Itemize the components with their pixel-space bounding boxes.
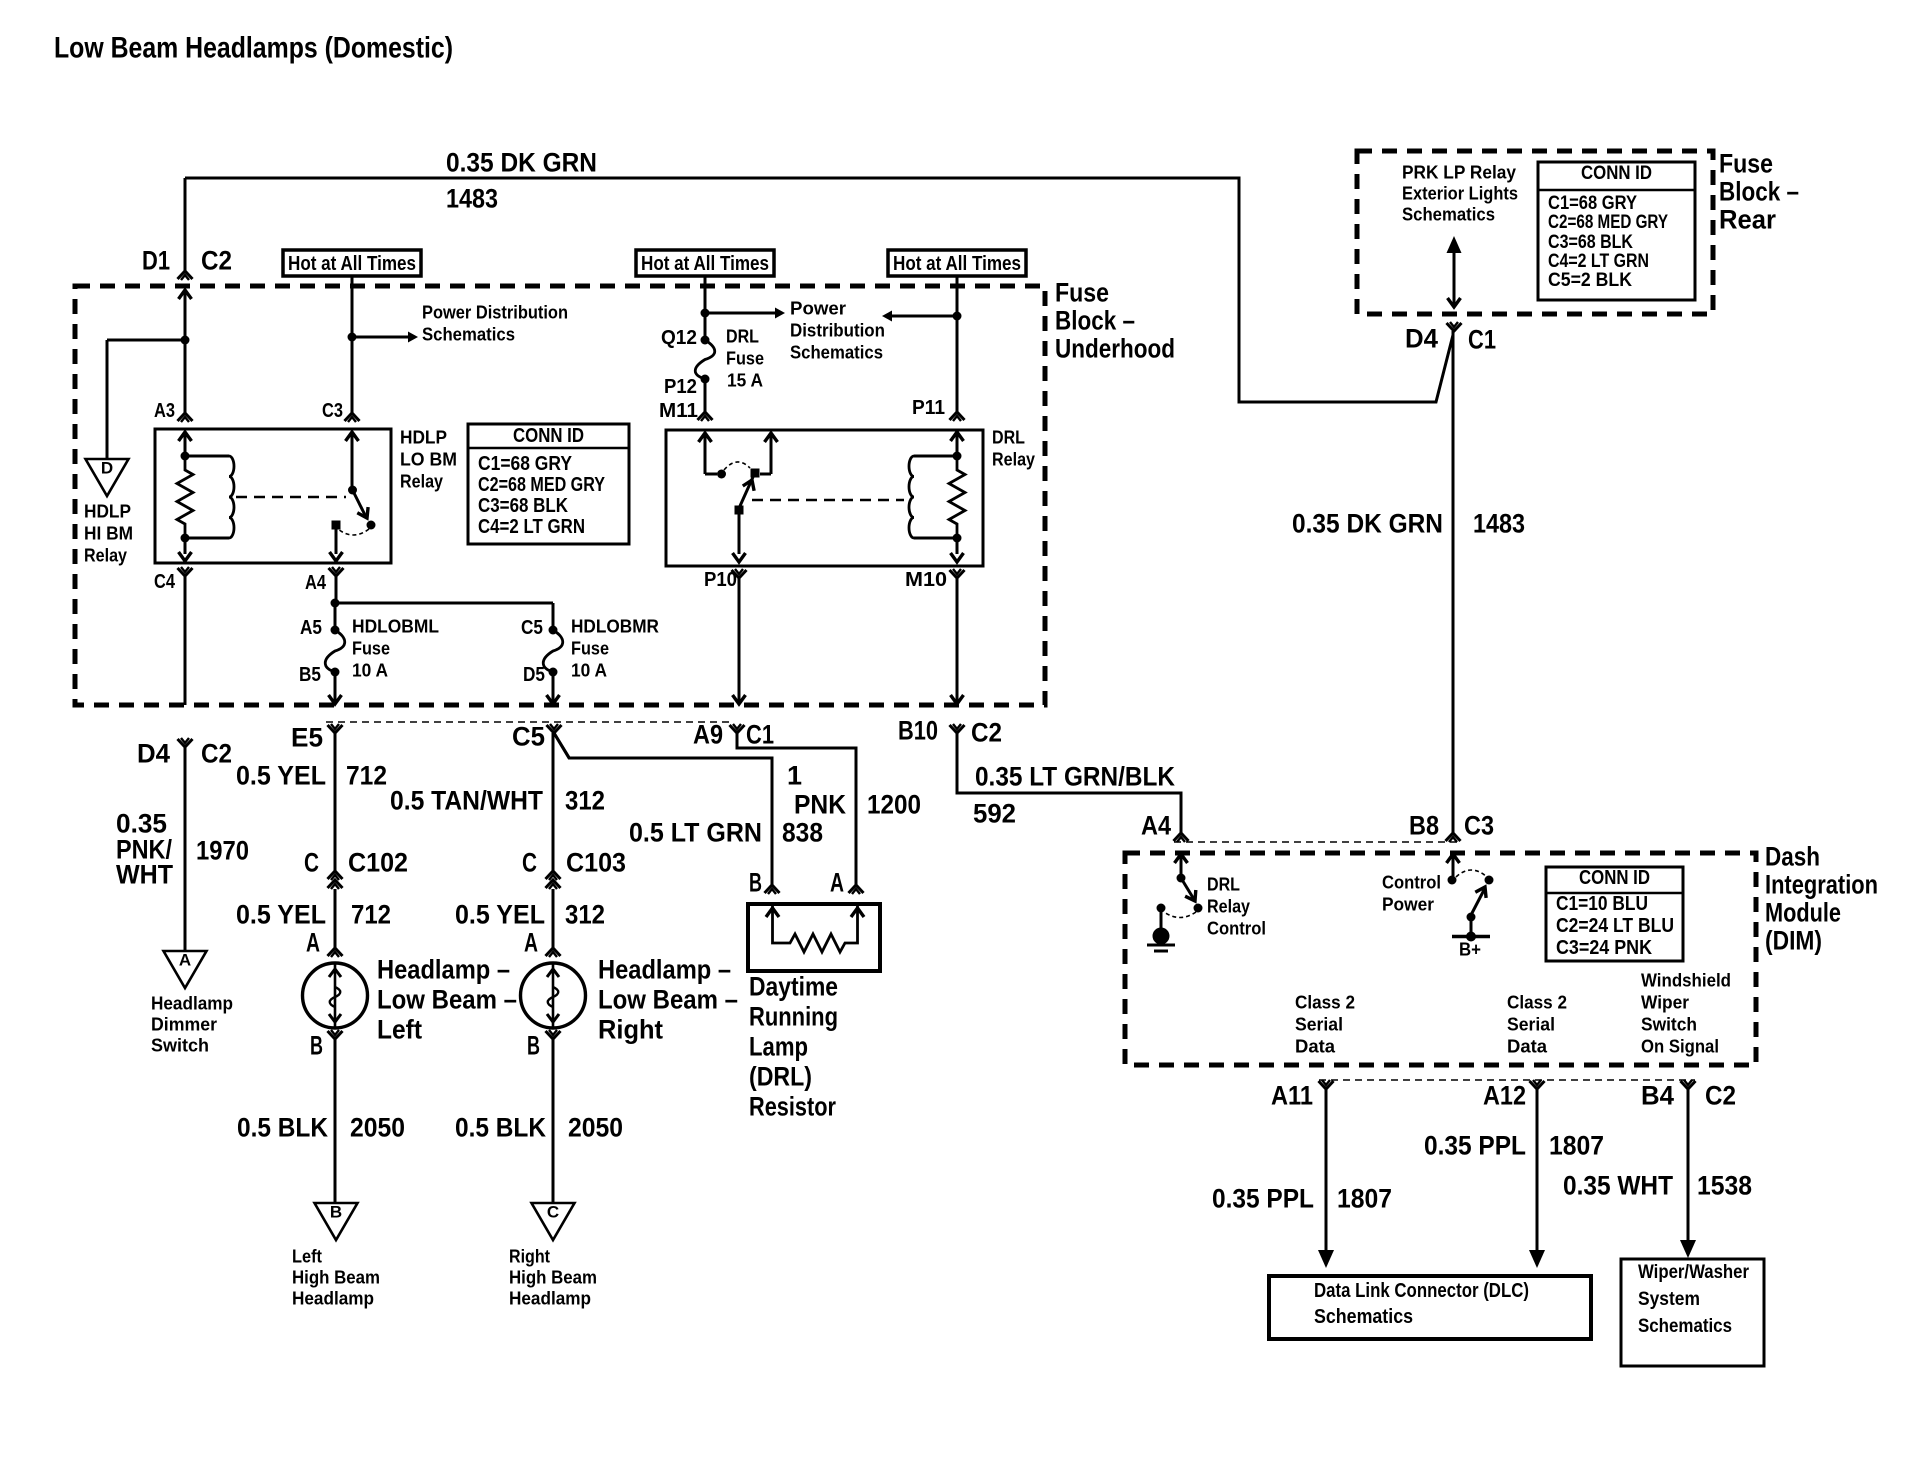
- svg-text:D: D: [101, 459, 113, 478]
- svg-text:10 A: 10 A: [571, 660, 607, 680]
- svg-text:C5: C5: [512, 722, 545, 752]
- svg-text:C1=10 BLU: C1=10 BLU: [1556, 893, 1648, 915]
- svg-text:C: C: [522, 848, 537, 878]
- svg-text:Left: Left: [292, 1246, 322, 1266]
- svg-text:P12: P12: [664, 376, 697, 398]
- svg-text:System: System: [1638, 1289, 1700, 1310]
- svg-text:B: B: [527, 1031, 540, 1061]
- svg-text:CONN ID: CONN ID: [1579, 867, 1650, 889]
- svg-text:Windshield: Windshield: [1641, 970, 1731, 990]
- svg-text:Fuse: Fuse: [1719, 149, 1773, 179]
- svg-text:Lamp: Lamp: [749, 1032, 808, 1062]
- svg-text:Class 2: Class 2: [1295, 992, 1355, 1012]
- svg-text:C4: C4: [154, 571, 176, 593]
- svg-text:E5: E5: [291, 723, 323, 753]
- svg-text:M11: M11: [659, 400, 698, 422]
- svg-text:PNK: PNK: [794, 790, 846, 820]
- svg-text:Headlamp –: Headlamp –: [377, 955, 510, 985]
- svg-text:C3: C3: [322, 400, 343, 422]
- svg-text:Hot at All Times: Hot at All Times: [893, 253, 1021, 275]
- svg-text:C1=68 GRY: C1=68 GRY: [478, 453, 573, 475]
- svg-text:Resistor: Resistor: [749, 1092, 836, 1122]
- svg-text:Exterior Lights: Exterior Lights: [1402, 183, 1518, 203]
- svg-text:C4=2 LT GRN: C4=2 LT GRN: [1548, 251, 1649, 272]
- svg-text:A3: A3: [154, 400, 175, 422]
- svg-text:HDLP: HDLP: [400, 427, 447, 447]
- svg-text:Relay: Relay: [84, 545, 127, 565]
- svg-text:WHT: WHT: [116, 860, 173, 890]
- svg-text:Dimmer: Dimmer: [151, 1014, 217, 1034]
- svg-text:2050: 2050: [568, 1113, 623, 1143]
- svg-text:B: B: [749, 868, 762, 898]
- svg-text:0.5 YEL: 0.5 YEL: [236, 900, 326, 930]
- svg-text:HDLOBMR: HDLOBMR: [571, 616, 659, 636]
- svg-text:Hot at All Times: Hot at All Times: [641, 253, 769, 275]
- svg-text:C2: C2: [201, 739, 232, 769]
- svg-text:Rear: Rear: [1719, 205, 1776, 235]
- svg-text:Control: Control: [1207, 918, 1266, 938]
- svg-text:B: B: [330, 1203, 342, 1222]
- svg-text:Underhood: Underhood: [1055, 334, 1175, 364]
- svg-text:A9: A9: [693, 720, 723, 750]
- svg-text:A11: A11: [1271, 1081, 1313, 1111]
- svg-text:1200: 1200: [867, 790, 921, 820]
- svg-text:CONN ID: CONN ID: [1581, 163, 1652, 184]
- svg-text:Fuse: Fuse: [571, 638, 609, 658]
- svg-text:1538: 1538: [1697, 1171, 1752, 1201]
- svg-text:LO BM: LO BM: [400, 449, 457, 469]
- svg-text:2050: 2050: [350, 1113, 405, 1143]
- svg-text:M10: M10: [905, 569, 947, 591]
- svg-text:Power Distribution: Power Distribution: [422, 302, 568, 322]
- svg-text:0.35 PPL: 0.35 PPL: [1212, 1184, 1314, 1214]
- svg-text:C3: C3: [1464, 811, 1494, 841]
- svg-text:A4: A4: [305, 572, 327, 594]
- svg-text:(DRL): (DRL): [749, 1062, 812, 1092]
- svg-text:High Beam: High Beam: [292, 1267, 380, 1287]
- svg-text:B+: B+: [1459, 939, 1481, 959]
- svg-text:1970: 1970: [196, 836, 249, 866]
- svg-text:C5: C5: [521, 617, 543, 639]
- svg-text:Data: Data: [1295, 1036, 1336, 1056]
- svg-text:C3=68 BLK: C3=68 BLK: [478, 495, 568, 517]
- svg-text:Q12: Q12: [661, 327, 697, 349]
- svg-text:C: C: [547, 1203, 559, 1222]
- svg-text:A: A: [179, 951, 191, 970]
- svg-text:312: 312: [565, 786, 605, 816]
- svg-text:D4: D4: [1405, 324, 1438, 354]
- svg-text:Low Beam –: Low Beam –: [598, 985, 738, 1015]
- svg-text:Module: Module: [1765, 898, 1841, 928]
- svg-text:PRK LP Relay: PRK LP Relay: [1402, 162, 1516, 182]
- svg-text:Switch: Switch: [1641, 1014, 1697, 1034]
- svg-text:C2: C2: [1705, 1081, 1736, 1111]
- svg-text:Headlamp: Headlamp: [151, 993, 233, 1013]
- svg-text:Schematics: Schematics: [1638, 1316, 1732, 1337]
- svg-text:838: 838: [782, 818, 823, 848]
- svg-text:Left: Left: [377, 1015, 422, 1045]
- svg-text:C1: C1: [746, 720, 774, 750]
- svg-text:C1: C1: [1468, 325, 1496, 355]
- svg-text:712: 712: [346, 761, 387, 791]
- svg-text:C2=68 MED GRY: C2=68 MED GRY: [1548, 212, 1668, 233]
- svg-text:C2=68 MED GRY: C2=68 MED GRY: [478, 474, 606, 496]
- svg-text:Block –: Block –: [1719, 177, 1799, 207]
- svg-text:D4: D4: [137, 739, 170, 769]
- svg-text:C3=68 BLK: C3=68 BLK: [1548, 232, 1633, 253]
- svg-text:Serial: Serial: [1295, 1014, 1343, 1034]
- svg-text:Distribution: Distribution: [790, 320, 885, 340]
- svg-text:10 A: 10 A: [352, 660, 388, 680]
- svg-text:B4: B4: [1641, 1081, 1674, 1111]
- svg-text:A: A: [524, 928, 538, 958]
- svg-text:Running: Running: [749, 1002, 838, 1032]
- svg-text:B10: B10: [898, 716, 938, 746]
- svg-text:Switch: Switch: [151, 1035, 209, 1055]
- svg-text:B: B: [310, 1031, 323, 1061]
- svg-text:Relay: Relay: [992, 449, 1035, 469]
- svg-text:712: 712: [351, 900, 391, 930]
- svg-text:Block –: Block –: [1055, 306, 1135, 336]
- svg-text:0.35 DK GRN: 0.35 DK GRN: [1292, 509, 1443, 539]
- svg-text:0.5 BLK: 0.5 BLK: [455, 1113, 546, 1143]
- svg-text:C103: C103: [566, 848, 626, 878]
- svg-text:Power: Power: [1382, 894, 1434, 914]
- svg-text:1: 1: [787, 761, 802, 791]
- svg-text:Dash: Dash: [1765, 842, 1820, 872]
- svg-text:Fuse: Fuse: [726, 348, 764, 368]
- svg-text:Headlamp: Headlamp: [292, 1288, 374, 1308]
- svg-text:B8: B8: [1409, 811, 1439, 841]
- svg-text:0.5 TAN/WHT: 0.5 TAN/WHT: [390, 786, 543, 816]
- svg-text:Headlamp: Headlamp: [509, 1288, 591, 1308]
- svg-text:0.5 LT GRN: 0.5 LT GRN: [629, 818, 762, 848]
- svg-text:DRL: DRL: [726, 326, 759, 346]
- svg-text:1807: 1807: [1549, 1131, 1604, 1161]
- svg-text:C102: C102: [348, 848, 408, 878]
- svg-text:CONN ID: CONN ID: [513, 425, 584, 447]
- svg-text:Headlamp –: Headlamp –: [598, 955, 731, 985]
- svg-text:0.5 BLK: 0.5 BLK: [237, 1113, 328, 1143]
- svg-text:DRL: DRL: [1207, 874, 1240, 894]
- svg-text:HDLOBML: HDLOBML: [352, 616, 439, 636]
- svg-text:DRL: DRL: [992, 427, 1025, 447]
- svg-text:Integration: Integration: [1765, 870, 1878, 900]
- svg-text:0.35 WHT: 0.35 WHT: [1563, 1171, 1673, 1201]
- svg-text:Power: Power: [790, 298, 846, 318]
- svg-text:HDLP: HDLP: [84, 501, 131, 521]
- svg-text:0.35 PPL: 0.35 PPL: [1424, 1131, 1526, 1161]
- svg-text:Data Link Connector (DLC): Data Link Connector (DLC): [1314, 1280, 1529, 1302]
- svg-text:C3=24 PNK: C3=24 PNK: [1556, 937, 1652, 959]
- svg-text:C5=2 BLK: C5=2 BLK: [1548, 270, 1632, 291]
- svg-text:0.5 YEL: 0.5 YEL: [455, 900, 545, 930]
- svg-text:C4=2 LT GRN: C4=2 LT GRN: [478, 516, 585, 538]
- svg-text:A: A: [830, 868, 844, 898]
- svg-text:(DIM): (DIM): [1765, 926, 1822, 956]
- svg-text:Relay: Relay: [1207, 896, 1250, 916]
- svg-text:0.35 LT GRN/BLK: 0.35 LT GRN/BLK: [975, 762, 1175, 792]
- svg-text:HI BM: HI BM: [84, 523, 133, 543]
- svg-text:C: C: [304, 848, 319, 878]
- svg-text:1807: 1807: [1337, 1184, 1392, 1214]
- svg-text:A5: A5: [300, 617, 322, 639]
- svg-text:15 A: 15 A: [727, 370, 763, 390]
- svg-text:A12: A12: [1483, 1081, 1526, 1111]
- svg-text:Right: Right: [598, 1015, 663, 1045]
- svg-text:Data: Data: [1507, 1036, 1548, 1056]
- svg-text:C1=68 GRY: C1=68 GRY: [1548, 193, 1637, 214]
- svg-text:D1: D1: [142, 246, 170, 276]
- svg-text:0.35 DK GRN: 0.35 DK GRN: [446, 148, 597, 178]
- svg-text:312: 312: [565, 900, 605, 930]
- svg-text:A4: A4: [1141, 811, 1171, 841]
- svg-text:C2: C2: [201, 246, 232, 276]
- svg-text:Daytime: Daytime: [749, 972, 838, 1002]
- svg-text:Schematics: Schematics: [1314, 1306, 1413, 1328]
- svg-text:Low Beam Headlamps (Domestic): Low Beam Headlamps (Domestic): [54, 32, 453, 65]
- svg-text:Wiper: Wiper: [1641, 992, 1689, 1012]
- svg-text:Schematics: Schematics: [790, 342, 883, 362]
- svg-text:Wiper/Washer: Wiper/Washer: [1638, 1262, 1750, 1283]
- svg-text:Fuse: Fuse: [352, 638, 390, 658]
- svg-text:C2: C2: [971, 718, 1002, 748]
- svg-text:High Beam: High Beam: [509, 1267, 597, 1287]
- svg-text:1483: 1483: [1473, 509, 1525, 539]
- svg-text:592: 592: [973, 799, 1016, 829]
- svg-text:On Signal: On Signal: [1641, 1036, 1719, 1056]
- svg-text:C2=24 LT BLU: C2=24 LT BLU: [1556, 915, 1674, 937]
- svg-text:Relay: Relay: [400, 471, 443, 491]
- svg-text:Fuse: Fuse: [1055, 278, 1109, 308]
- svg-text:Right: Right: [509, 1246, 550, 1266]
- svg-text:D5: D5: [523, 664, 545, 686]
- svg-text:P11: P11: [912, 397, 945, 419]
- svg-text:0.5 YEL: 0.5 YEL: [236, 761, 326, 791]
- svg-text:Serial: Serial: [1507, 1014, 1555, 1034]
- svg-text:Low Beam –: Low Beam –: [377, 985, 517, 1015]
- svg-text:Schematics: Schematics: [1402, 204, 1495, 224]
- svg-text:A: A: [306, 928, 320, 958]
- svg-text:Control: Control: [1382, 872, 1441, 892]
- svg-text:1483: 1483: [446, 184, 498, 214]
- svg-text:B5: B5: [299, 664, 321, 686]
- svg-text:Class 2: Class 2: [1507, 992, 1567, 1012]
- svg-text:Schematics: Schematics: [422, 324, 515, 344]
- svg-text:Hot at All Times: Hot at All Times: [288, 253, 416, 275]
